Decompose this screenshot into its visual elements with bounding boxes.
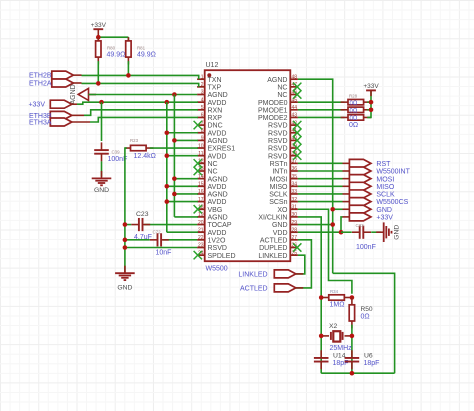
svg-text:36: 36 bbox=[292, 166, 298, 172]
svg-text:GND: GND bbox=[376, 207, 392, 214]
no-connect X pin 18 bbox=[194, 205, 202, 213]
pin 9 AGND (left) bbox=[197, 136, 228, 145]
pin 4 AVDD (left) bbox=[197, 97, 226, 106]
wire pin23 RSVD to GND bus bbox=[125, 247, 197, 249]
pin 20 TOCAP (left) bbox=[197, 220, 232, 229]
svg-text:10: 10 bbox=[198, 143, 204, 149]
no-connect X pin 46 bbox=[293, 90, 301, 98]
pin 25 LINKLED (right) bbox=[258, 250, 298, 259]
wire pin35 to MOSI connector bbox=[298, 178, 343, 180]
wire ETH2A to pin2 TXP bbox=[82, 83, 199, 86]
resistor R80 49.9 ohm bbox=[96, 37, 101, 64]
wire pin29 GND to bus bbox=[298, 224, 333, 226]
wire GND bus elbow to crystal bbox=[333, 273, 395, 373]
svg-text:RSVD: RSVD bbox=[268, 146, 287, 153]
connector GND bbox=[343, 205, 371, 213]
pin 33 SCLK (right) bbox=[269, 189, 298, 198]
junction pin14 bbox=[172, 176, 177, 181]
svg-text:SCSn: SCSn bbox=[269, 199, 287, 206]
svg-text:1: 1 bbox=[201, 74, 204, 80]
svg-text:PMODE0: PMODE0 bbox=[258, 100, 288, 107]
svg-text:1MΩ: 1MΩ bbox=[330, 302, 345, 309]
svg-text:30: 30 bbox=[292, 212, 298, 218]
op-amp U12 W5500 IC body bbox=[205, 70, 291, 261]
junction pin9 bbox=[172, 138, 177, 143]
junction R81/ETH2B bbox=[126, 73, 131, 78]
svg-text:GND: GND bbox=[272, 222, 288, 229]
svg-text:MISO: MISO bbox=[270, 184, 288, 191]
supply AGND flag bbox=[78, 88, 96, 100]
svg-text:0Ω: 0Ω bbox=[361, 314, 370, 321]
junction Rpack b bbox=[369, 108, 374, 113]
no-connect X pin 26 bbox=[293, 243, 301, 251]
wire PMODE0 to R28a bbox=[298, 101, 345, 103]
wire +33V split bbox=[98, 36, 128, 38]
svg-text:16: 16 bbox=[198, 189, 204, 195]
pin 40 RSVD (right) bbox=[268, 136, 298, 145]
junction GND bus / GND connector bbox=[330, 207, 335, 212]
junction RSVD/GND bus bbox=[123, 245, 128, 250]
junction pin15 bbox=[165, 184, 170, 189]
svg-text:GND: GND bbox=[94, 187, 109, 194]
wire C23 left bbox=[125, 224, 131, 226]
svg-text:TXP: TXP bbox=[208, 84, 222, 91]
wire pin11 AVDD bbox=[167, 155, 198, 157]
wire ETH3B to pin5 RXN bbox=[84, 110, 198, 116]
svg-text:R23: R23 bbox=[130, 138, 139, 143]
ground GND right rotated bbox=[376, 222, 391, 242]
svg-text:R28: R28 bbox=[349, 93, 358, 98]
junction AGND bus top bbox=[172, 92, 177, 97]
svg-text:AGND: AGND bbox=[208, 192, 228, 199]
svg-text:1V2O: 1V2O bbox=[208, 237, 226, 244]
junction X2 right bbox=[350, 334, 355, 339]
no-connect X pin 38 bbox=[293, 152, 301, 160]
no-connect X pin 24 bbox=[194, 251, 202, 259]
svg-text:PMODE2: PMODE2 bbox=[258, 115, 288, 122]
svg-text:R81: R81 bbox=[137, 45, 146, 50]
svg-text:31: 31 bbox=[292, 204, 298, 210]
svg-text:ETH3A: ETH3A bbox=[29, 120, 52, 127]
svg-text:20: 20 bbox=[198, 220, 204, 226]
pin 35 MOSI (right) bbox=[270, 174, 298, 183]
svg-text:+33V: +33V bbox=[28, 102, 45, 109]
wire pin37 to RST connector bbox=[298, 162, 343, 164]
junction C23/GND bus bbox=[123, 222, 128, 227]
connector +33V bbox=[343, 213, 371, 221]
svg-text:49.9Ω: 49.9Ω bbox=[137, 51, 156, 58]
connector W5500CS bbox=[343, 198, 371, 206]
svg-text:0Ω: 0Ω bbox=[350, 101, 358, 107]
svg-text:2: 2 bbox=[201, 82, 204, 88]
svg-text:C72: C72 bbox=[153, 230, 162, 235]
supply +33V top-left bbox=[91, 22, 107, 38]
pin 27 ACTLED (right) bbox=[260, 235, 298, 244]
wire pin32 to W5500CS connector bbox=[298, 201, 343, 203]
svg-text:18pF: 18pF bbox=[364, 360, 380, 367]
resistor R28b 0 ohm PMODE1 bbox=[341, 107, 371, 112]
pin 43 PMODE2 (right) bbox=[258, 113, 298, 122]
crystal X2 25MHz bbox=[321, 331, 352, 341]
pin 15 AVDD (left) bbox=[197, 182, 226, 191]
svg-text:C23: C23 bbox=[136, 211, 149, 218]
no-connect X pin 40 bbox=[293, 136, 301, 144]
svg-text:43: 43 bbox=[292, 113, 298, 119]
svg-text:NC: NC bbox=[208, 161, 218, 168]
svg-text:AGND: AGND bbox=[208, 215, 228, 222]
ground GND left-top bbox=[92, 171, 112, 185]
wire pin48 AGND to GND bus bbox=[298, 79, 333, 273]
wire R23 to pin10 EXRES1 bbox=[150, 147, 198, 149]
svg-text:TXN: TXN bbox=[208, 77, 222, 84]
svg-text:DUPLED: DUPLED bbox=[259, 245, 287, 252]
svg-text:U14: U14 bbox=[333, 352, 346, 359]
resistor R28c 0 ohm PMODE2 bbox=[341, 115, 371, 120]
pin 26 DUPLED (right) bbox=[259, 243, 298, 252]
svg-text:32: 32 bbox=[292, 197, 298, 203]
capacitor C72 10nF bbox=[150, 233, 169, 246]
svg-text:AGND: AGND bbox=[208, 176, 228, 183]
junction C72/GND bus bbox=[123, 238, 128, 243]
svg-text:GND: GND bbox=[394, 225, 401, 240]
wire R-pack to +33V vertical bbox=[367, 90, 371, 117]
connector MOSI bbox=[343, 175, 371, 183]
pin 18 VBG (left) bbox=[197, 204, 222, 213]
svg-text:0Ω: 0Ω bbox=[350, 116, 358, 122]
svg-text:AVDD: AVDD bbox=[208, 130, 227, 137]
wire pin19 AGND bus end bbox=[174, 216, 198, 218]
svg-text:0Ω: 0Ω bbox=[350, 108, 358, 114]
no-connect X pin 47 bbox=[293, 83, 301, 91]
connector SCLK bbox=[343, 190, 371, 198]
pin 22 1V2O (left) bbox=[197, 235, 226, 244]
svg-text:W5500CS: W5500CS bbox=[376, 199, 408, 206]
svg-text:AGND: AGND bbox=[70, 84, 77, 104]
svg-text:28: 28 bbox=[292, 227, 298, 233]
junction pin29 GND bus bbox=[330, 222, 335, 227]
svg-text:6: 6 bbox=[201, 113, 204, 119]
connector ETH3A bbox=[50, 118, 90, 126]
wire pin33 to SCLK connector bbox=[298, 193, 343, 195]
svg-text:RXN: RXN bbox=[208, 107, 223, 114]
pin 39 RSVD (right) bbox=[268, 143, 298, 152]
svg-text:35: 35 bbox=[292, 174, 298, 180]
svg-text:XI/CLKIN: XI/CLKIN bbox=[258, 215, 287, 222]
wire R80 to ETH2A net bbox=[97, 61, 99, 83]
wire GND bus to GND connector bbox=[333, 208, 343, 210]
wire AVDD bus vertical bbox=[166, 102, 168, 232]
pin 11 AVDD (left) bbox=[197, 151, 226, 160]
svg-text:W5500INT: W5500INT bbox=[376, 169, 410, 176]
svg-text:23: 23 bbox=[198, 243, 204, 249]
wire C33 right to GND bbox=[371, 231, 381, 233]
connector ETH3B bbox=[50, 111, 84, 119]
wire AGND bus vertical bbox=[173, 95, 175, 217]
connector RST bbox=[343, 159, 371, 167]
svg-text:49.9Ω: 49.9Ω bbox=[107, 51, 126, 58]
resistor R81 49.9 ohm bbox=[126, 37, 131, 64]
pin 44 PMODE1 (right) bbox=[258, 105, 298, 114]
no-connect X pin 12 bbox=[194, 159, 202, 167]
svg-text:AVDD: AVDD bbox=[208, 100, 227, 107]
pin 7 DNC (left) bbox=[197, 120, 223, 129]
no-connect X pin 42 bbox=[293, 121, 301, 129]
svg-text:AGND: AGND bbox=[208, 138, 228, 145]
pin 31 XO (right) bbox=[277, 204, 298, 213]
junction pin11 bbox=[165, 153, 170, 158]
svg-text:33: 33 bbox=[292, 189, 298, 195]
svg-text:RSVD: RSVD bbox=[268, 138, 287, 145]
svg-text:+33V: +33V bbox=[363, 83, 379, 90]
connector MISO bbox=[343, 182, 371, 190]
pin 12 NC (left) bbox=[197, 159, 218, 168]
capacitor C23 4.7uF bbox=[131, 218, 150, 231]
svg-text:U12: U12 bbox=[206, 62, 219, 69]
pin 2 TXP (left) bbox=[197, 82, 221, 91]
svg-text:27: 27 bbox=[292, 235, 298, 241]
svg-text:34: 34 bbox=[292, 182, 298, 188]
wire PMODE1 to R28b bbox=[298, 109, 345, 111]
svg-text:LINKLED: LINKLED bbox=[238, 271, 267, 278]
connector LINKLED bbox=[274, 270, 303, 278]
svg-text:RSVD: RSVD bbox=[268, 123, 287, 130]
svg-text:INTn: INTn bbox=[272, 169, 287, 176]
svg-text:C33: C33 bbox=[356, 223, 365, 228]
svg-text:3: 3 bbox=[201, 90, 204, 96]
wire ETH3A to pin6 RXP bbox=[90, 117, 198, 122]
svg-text:11: 11 bbox=[198, 151, 203, 157]
pin 16 AGND (left) bbox=[197, 189, 228, 198]
svg-text:U6: U6 bbox=[364, 352, 373, 359]
svg-text:4: 4 bbox=[201, 97, 204, 103]
svg-text:RSTn: RSTn bbox=[270, 161, 288, 168]
pin 13 NC (left) bbox=[197, 166, 218, 175]
pin 23 RSVD (left) bbox=[197, 243, 227, 252]
wire pin28 VDD bbox=[298, 231, 341, 233]
pin 6 RXP (left) bbox=[197, 113, 222, 122]
ground GND bottom-left bbox=[115, 266, 135, 280]
supply +33V right bbox=[363, 83, 379, 96]
no-connect X pin 41 bbox=[293, 129, 301, 137]
junction AVDD/C39 bbox=[99, 100, 104, 105]
wire pin20 TOCAP to C23 bbox=[144, 224, 197, 226]
pin 48 AGND (right) bbox=[267, 74, 298, 83]
junction pin16 bbox=[172, 192, 177, 197]
connector +33V left bbox=[50, 100, 77, 108]
svg-text:SCLK: SCLK bbox=[269, 192, 288, 199]
svg-text:MOSI: MOSI bbox=[376, 176, 394, 183]
pin 37 RSTn (right) bbox=[270, 159, 298, 168]
wire C33 left bbox=[341, 231, 352, 233]
svg-text:ACTLED: ACTLED bbox=[260, 237, 288, 244]
svg-text:C39: C39 bbox=[112, 150, 121, 155]
svg-text:MISO: MISO bbox=[376, 184, 394, 191]
wire pin25 LINKLED bbox=[296, 255, 305, 274]
junction AVDD bus top bbox=[165, 100, 170, 105]
pin 24 SPDLED (left) bbox=[197, 250, 235, 259]
svg-text:RST: RST bbox=[376, 161, 391, 168]
svg-text:RSVD: RSVD bbox=[208, 245, 227, 252]
wire PMODE2 to R28c bbox=[298, 116, 345, 118]
wire pin31 XO to crystal right rail bbox=[298, 209, 352, 294]
junction R34 left bbox=[319, 295, 324, 300]
pin 5 RXN (left) bbox=[197, 105, 222, 114]
resistor R23 12.4k bbox=[125, 145, 153, 150]
wire pin16 AGND bbox=[174, 193, 198, 195]
svg-text:VDD: VDD bbox=[273, 230, 288, 237]
svg-text:10nF: 10nF bbox=[156, 250, 172, 257]
connector ETH2A bbox=[52, 79, 82, 87]
resistor R34 1M bbox=[321, 295, 351, 300]
svg-text:GND: GND bbox=[117, 285, 132, 292]
wire C39 to GND bbox=[101, 161, 103, 176]
junction pin17 bbox=[165, 199, 170, 204]
svg-text:AVDD: AVDD bbox=[208, 230, 227, 237]
svg-text:ACTLED: ACTLED bbox=[240, 285, 268, 292]
wire R81 to ETH2B net bbox=[127, 61, 129, 75]
capacitor U6 18pF bbox=[345, 350, 360, 369]
svg-text:MOSI: MOSI bbox=[270, 176, 288, 183]
svg-text:48: 48 bbox=[292, 74, 298, 80]
svg-text:29: 29 bbox=[292, 220, 298, 226]
capacitor C39 100nF bbox=[94, 142, 109, 161]
wire pin14 AGND bbox=[174, 178, 198, 180]
svg-text:R80: R80 bbox=[107, 45, 116, 50]
svg-text:DNC: DNC bbox=[208, 123, 223, 130]
svg-text:AVDD: AVDD bbox=[208, 199, 227, 206]
svg-text:9: 9 bbox=[201, 136, 204, 142]
pin 45 PMODE0 (right) bbox=[258, 97, 298, 106]
svg-text:NC: NC bbox=[208, 169, 218, 176]
pin 1 TXN (left) bbox=[197, 74, 221, 83]
svg-text:22: 22 bbox=[198, 235, 204, 241]
pin 46 NC (right) bbox=[277, 90, 298, 99]
wire right rail R50 to X2 bbox=[351, 325, 353, 374]
pin 17 AVDD (left) bbox=[197, 197, 226, 206]
junction X2 left bbox=[319, 334, 324, 339]
wire +33V conn to pin4 AVDD bbox=[77, 102, 198, 104]
pin 41 RSVD (right) bbox=[268, 128, 298, 137]
svg-text:5: 5 bbox=[201, 105, 204, 111]
connector W5500INT bbox=[343, 167, 371, 175]
wire pin30 XI/CLKIN to crystal left rail bbox=[298, 217, 321, 373]
wire pin8 AVDD bbox=[167, 132, 198, 134]
svg-text:VBG: VBG bbox=[208, 207, 223, 214]
pin 42 RSVD (right) bbox=[268, 120, 298, 129]
connector ETH2B bbox=[52, 71, 82, 79]
svg-text:AGND: AGND bbox=[267, 77, 287, 84]
wire pin27 ACTLED bbox=[296, 240, 312, 288]
svg-text:PMODE1: PMODE1 bbox=[258, 107, 288, 114]
svg-text:R34: R34 bbox=[330, 289, 339, 294]
junction VDD/C33 bbox=[339, 230, 344, 235]
svg-text:RSVD: RSVD bbox=[268, 153, 287, 160]
wire pin9 AGND bbox=[174, 139, 198, 141]
wire crystal bottom rail bbox=[321, 372, 394, 374]
wire pin21 AVDD bus end bbox=[167, 231, 198, 233]
svg-text:44: 44 bbox=[292, 105, 298, 111]
wire pin15 AVDD bbox=[167, 185, 198, 187]
svg-text:EXRES1: EXRES1 bbox=[208, 146, 236, 153]
svg-text:25MHz: 25MHz bbox=[330, 345, 353, 352]
svg-text:R50: R50 bbox=[361, 306, 373, 313]
pin 21 AVDD (left) bbox=[197, 227, 226, 236]
svg-text:AVDD: AVDD bbox=[208, 184, 227, 191]
pin 30 XI/CLKIN (right) bbox=[258, 212, 298, 221]
no-connect X pin 7 bbox=[194, 121, 202, 129]
junction R80/ETH2A bbox=[96, 81, 101, 86]
pin 29 GND (right) bbox=[272, 220, 298, 229]
junction bottom rail bbox=[350, 371, 355, 376]
svg-text:RSVD: RSVD bbox=[268, 130, 287, 137]
svg-text:17: 17 bbox=[198, 197, 204, 203]
pin 14 AGND (left) bbox=[197, 174, 228, 183]
svg-text:AVDD: AVDD bbox=[208, 153, 227, 160]
svg-text:NC: NC bbox=[277, 92, 287, 99]
svg-text:SPDLED: SPDLED bbox=[208, 253, 236, 260]
svg-text:ETH2A: ETH2A bbox=[29, 81, 52, 88]
svg-text:XO: XO bbox=[277, 207, 288, 214]
svg-text:AGND: AGND bbox=[208, 92, 228, 99]
pin 19 AGND (left) bbox=[197, 212, 228, 221]
wire C72 left bbox=[125, 239, 150, 241]
resistor R28a 0 ohm PMODE0 bbox=[341, 99, 371, 104]
connector ACTLED bbox=[274, 284, 303, 292]
svg-text:RXP: RXP bbox=[208, 115, 223, 122]
no-connect X pin 13 bbox=[194, 167, 202, 175]
pin 47 NC (right) bbox=[277, 82, 298, 91]
junction +33V/R80/R81 bbox=[96, 35, 101, 40]
junction Rpack a bbox=[369, 100, 374, 105]
no-connect X pin 39 bbox=[293, 144, 301, 152]
pin 8 AVDD (left) bbox=[197, 128, 226, 137]
svg-text:SCLK: SCLK bbox=[376, 192, 395, 199]
pin 10 EXRES1 (left) bbox=[197, 143, 235, 152]
pin 36 INTn (right) bbox=[272, 166, 298, 175]
capacitor C33 100nF bbox=[352, 226, 371, 239]
svg-text:+33V: +33V bbox=[376, 215, 393, 222]
wire +33V connector down to VDD bbox=[341, 217, 343, 232]
svg-text:ETH2B: ETH2B bbox=[29, 73, 52, 80]
svg-text:W5500: W5500 bbox=[206, 266, 228, 273]
svg-text:21: 21 bbox=[198, 227, 204, 233]
svg-text:0Ω: 0Ω bbox=[349, 122, 358, 129]
wire ETH2B to pin1 TXN bbox=[82, 75, 199, 79]
pin 34 MISO (right) bbox=[270, 182, 298, 191]
svg-text:TOCAP: TOCAP bbox=[208, 222, 232, 229]
wire AGND to pin3 bbox=[89, 94, 198, 96]
pin 28 VDD (right) bbox=[273, 227, 298, 236]
wire AVDD to C39 bbox=[101, 102, 103, 141]
svg-text:NC: NC bbox=[277, 84, 287, 91]
junction pin8 bbox=[165, 130, 170, 135]
wire R23 left to GND bus bbox=[125, 148, 127, 270]
pin 38 RSVD (right) bbox=[268, 151, 298, 160]
svg-text:X2: X2 bbox=[329, 323, 338, 330]
wire pin36 to W5500INT connector bbox=[298, 170, 343, 172]
wire pin34 to MISO connector bbox=[298, 185, 343, 187]
pin 3 AGND (left) bbox=[197, 90, 228, 99]
wire pin22 1V2O to C72 bbox=[163, 239, 197, 241]
wire pin17 AVDD bbox=[167, 201, 198, 203]
junction R34 right bbox=[350, 295, 355, 300]
capacitor U14 18pF bbox=[314, 350, 329, 369]
resistor R50 0 ohm in series bbox=[349, 297, 354, 328]
svg-text:100nF: 100nF bbox=[356, 244, 376, 251]
svg-text:15: 15 bbox=[198, 182, 204, 188]
svg-text:+33V: +33V bbox=[91, 22, 107, 29]
svg-text:LINKLED: LINKLED bbox=[258, 253, 287, 260]
